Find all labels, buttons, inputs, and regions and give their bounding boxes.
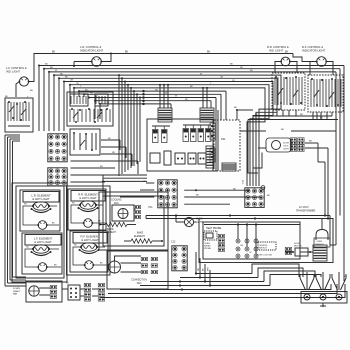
svg-text:DOOR: DOOR: [283, 143, 290, 145]
svg-text:BK: BK: [196, 194, 199, 196]
svg-text:RD: RD: [90, 93, 94, 95]
svg-text:COOLING: COOLING: [111, 199, 122, 201]
surface element R.F. with hot light: [70, 231, 108, 272]
svg-text:BU: BU: [250, 70, 253, 72]
svg-text:RD: RD: [74, 245, 77, 247]
svg-text:BK: BK: [54, 265, 57, 267]
svg-text:INDICATOR LIGHT: INDICATOR LIGHT: [302, 49, 326, 53]
svg-text:DRAFT: DRAFT: [13, 290, 21, 293]
electronic range control board: [147, 119, 213, 171]
connector P21 dashed box: [214, 120, 240, 171]
svg-text:FAN: FAN: [13, 293, 18, 296]
wires into P11: [146, 182, 154, 184]
wire feeds from C12 to bottom bus: [195, 252, 197, 274]
wire outer wrap left elements: [16, 186, 64, 278]
wire door lock to right: [305, 142, 318, 144]
switch box left C (oven selector): [70, 129, 100, 155]
svg-text:BK: BK: [52, 51, 56, 54]
svg-text:RD: RD: [155, 89, 159, 91]
surface element R.R. with hot light: [68, 189, 106, 230]
wire center section outer boxes: [103, 196, 164, 246]
wire door lock wrap corners: [253, 128, 262, 168]
switch box left A (surface switch): [5, 98, 33, 132]
connector P11: [158, 180, 177, 208]
wire left wrap verticals: [4, 135, 6, 286]
svg-text:& HOT LIGHT: & HOT LIGHT: [32, 197, 50, 201]
switch box right D (R.F. infinite switch): [308, 75, 343, 112]
connector grid left upper: [48, 134, 67, 162]
svg-text:BK: BK: [203, 268, 205, 271]
svg-text:& HOT LIGHT: & HOT LIGHT: [34, 240, 52, 244]
svg-text:OR: OR: [220, 77, 224, 79]
svg-text:BK: BK: [66, 283, 69, 285]
svg-text:CONVECTION: CONVECTION: [131, 280, 147, 282]
svg-text:BU: BU: [30, 90, 33, 92]
svg-text:W: W: [175, 96, 177, 98]
svg-text:BR: BR: [50, 67, 53, 69]
svg-text:PROBE: PROBE: [204, 248, 212, 250]
wire main top BK run: [29, 54, 293, 82]
svg-text:OR: OR: [70, 80, 74, 82]
svg-text:BK: BK: [52, 223, 55, 225]
svg-text:L.F. CONTROL &: L.F. CONTROL &: [6, 66, 27, 70]
svg-text:BU: BU: [100, 166, 103, 168]
svg-text:RD: RD: [240, 67, 244, 69]
svg-text:& HOT LIGHT: & HOT LIGHT: [81, 238, 99, 242]
switch box right C (R.R. infinite switch): [272, 73, 305, 110]
wire erc left feeds: [103, 174, 147, 176]
svg-text:BK: BK: [125, 51, 129, 54]
svg-text:BK: BK: [207, 51, 211, 54]
svg-text:RD: RD: [112, 152, 116, 154]
svg-text:BK: BK: [344, 276, 347, 278]
terminal block: [301, 292, 347, 304]
svg-text:BU: BU: [45, 64, 48, 66]
oven sensor: [316, 230, 328, 241]
svg-text:L.R. CONTROL &: L.R. CONTROL &: [80, 45, 101, 49]
wire heat probe row top: [204, 224, 300, 226]
svg-text:FAN: FAN: [137, 282, 142, 285]
svg-text:BK: BK: [100, 263, 103, 265]
svg-text:IND. LIGHT: IND. LIGHT: [269, 49, 283, 53]
svg-text:C13: C13: [243, 179, 245, 184]
indicator light R.F. control: [317, 57, 327, 67]
indicator light R.R. control: [281, 57, 290, 66]
svg-text:BU: BU: [165, 93, 168, 95]
svg-text:LOCK: LOCK: [283, 146, 289, 148]
heat probe section boxes: [203, 222, 300, 259]
indicator light L.R. control: [92, 57, 102, 67]
svg-text:P21: P21: [221, 137, 226, 141]
svg-text:BK: BK: [285, 51, 289, 54]
switch box left B (surface switch): [67, 92, 113, 126]
wire terminal funnels: [300, 278, 306, 290]
wire bottom bus corners: [252, 264, 299, 277]
svg-text:RATED: RATED: [204, 245, 211, 248]
svg-text:BK: BK: [267, 195, 270, 197]
svg-text:BK: BK: [309, 141, 312, 143]
svg-text:DOWN: DOWN: [13, 288, 20, 290]
svg-text:RD: RD: [198, 267, 200, 271]
wire right column to transformer line: [318, 161, 325, 163]
wire outer wrap right elements: [67, 186, 111, 275]
svg-text:HEAT PROBE: HEAT PROBE: [206, 227, 222, 230]
connector C12: [172, 246, 187, 271]
svg-text:ELEMENT: ELEMENT: [105, 232, 116, 234]
svg-text:BU: BU: [85, 89, 88, 91]
door lock light: [266, 138, 291, 152]
svg-text:W: W: [55, 70, 57, 72]
svg-text:SENSOR: SENSOR: [316, 244, 325, 246]
aux connector bottom left: [68, 285, 80, 300]
svg-text:RD: RD: [26, 247, 29, 249]
wire grid G1 G2 to center: [101, 139, 120, 141]
svg-text:FAN: FAN: [114, 202, 119, 205]
connector grid left lower: [48, 168, 67, 186]
wire bus cascade drops: [38, 66, 40, 132]
svg-text:INDICATOR LIGHT: INDICATOR LIGHT: [80, 49, 104, 53]
svg-text:BAKE: BAKE: [137, 231, 144, 234]
oven light: [184, 217, 193, 226]
svg-text:LIGHT: LIGHT: [196, 222, 203, 224]
svg-text:DOOR LOCK SW: DOOR LOCK SW: [256, 254, 272, 256]
svg-text:RD: RD: [72, 203, 75, 205]
svg-text:RD: RD: [24, 204, 27, 206]
indicator light L.F. control: [19, 77, 28, 86]
svg-text:BK: BK: [241, 245, 244, 247]
svg-text:MOTOR: MOTOR: [294, 246, 302, 248]
svg-text:RD: RD: [300, 114, 304, 116]
wire vertical drops center: [118, 75, 120, 176]
connector grid C13: [245, 188, 264, 208]
door latch switch contacts: [236, 239, 240, 243]
wire bus horizontal runs: [39, 65, 344, 67]
svg-text:BK: BK: [98, 221, 101, 223]
svg-text:BK: BK: [234, 107, 237, 109]
12 volt transformer: [313, 245, 327, 261]
svg-text:WH: WH: [208, 267, 210, 271]
svg-text:W: W: [250, 252, 252, 254]
svg-text:BK: BK: [281, 129, 284, 131]
surface element L.F. with hot light: [22, 233, 62, 274]
wire below right switches: [253, 115, 332, 117]
svg-text:LIGHT: LIGHT: [283, 149, 290, 151]
svg-text:R.F. CONTROL &: R.F. CONTROL &: [302, 45, 323, 49]
broil element resistor: [105, 222, 127, 226]
svg-text:SWITCH: SWITCH: [259, 248, 267, 250]
svg-text:RD: RD: [60, 73, 64, 75]
svg-text:LIGHTED: LIGHTED: [259, 245, 268, 247]
svg-text:& HOT LIGHT: & HOT LIGHT: [79, 196, 97, 200]
svg-text:OVEN: OVEN: [317, 241, 323, 243]
convection fan: [107, 251, 168, 289]
wire junction feeds to control board: [159, 85, 161, 108]
door lock switch: [258, 242, 276, 250]
surface element L.R. with hot light: [20, 190, 60, 231]
svg-text:P11: P11: [149, 206, 154, 209]
svg-text:R.R. CONTROL &: R.R. CONTROL &: [267, 45, 289, 49]
connector pair door lock: [291, 138, 293, 140]
svg-text:IND. LIGHT: IND. LIGHT: [6, 70, 20, 74]
svg-text:TRANSFORMER: TRANSFORMER: [296, 210, 316, 213]
wire bottom bus: [196, 273, 252, 275]
svg-text:C12: C12: [171, 241, 176, 244]
svg-text:W: W: [200, 73, 202, 75]
svg-text:ELEMENT: ELEMENT: [134, 236, 145, 238]
svg-text:BROIL: BROIL: [107, 229, 115, 231]
